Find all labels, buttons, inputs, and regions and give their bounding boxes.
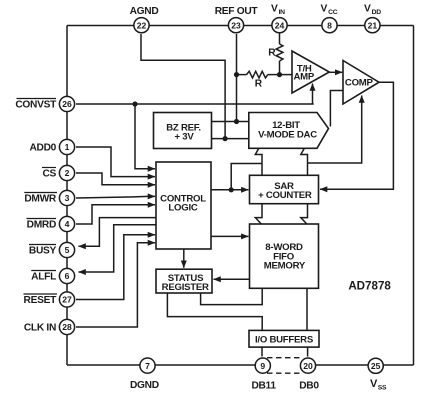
svg-text:V: V bbox=[364, 4, 371, 15]
wire CONVST branch to control logic bbox=[135, 104, 155, 169]
wire control logic to FIFO bbox=[211, 235, 248, 237]
svg-text:COMP: COMP bbox=[345, 78, 374, 89]
svg-text:R: R bbox=[255, 78, 263, 89]
pin 23 REF OUT bbox=[228, 18, 243, 33]
node REF OUT / DAC upper junction bbox=[234, 119, 239, 124]
svg-text:SS: SS bbox=[378, 384, 387, 391]
wire control logic to STATUS register bbox=[183, 249, 185, 268]
wire REF OUT junction to resistor R horizontal left lead bbox=[237, 74, 247, 76]
op-amp T/H AMP bbox=[292, 51, 329, 93]
wire DAC output to COMP lower input bbox=[308, 96, 362, 164]
wire CONVST to T/H AMP sample input bbox=[312, 84, 314, 105]
wire DMRD to control logic bbox=[76, 205, 155, 224]
wire right border bbox=[413, 26, 415, 366]
pin 24 VIN bbox=[272, 18, 287, 33]
wire VIN down to resistor bbox=[279, 34, 281, 45]
wire junction to T/H AMP input bbox=[280, 74, 293, 76]
svg-text:REF OUT: REF OUT bbox=[215, 6, 259, 17]
svg-text:DB0: DB0 bbox=[299, 381, 319, 392]
wire resistor right lead bbox=[268, 74, 280, 76]
pin 4 DMRD bbox=[59, 216, 74, 231]
svg-text:V-MODE DAC: V-MODE DAC bbox=[258, 130, 317, 141]
wire STATUS to I/O buffers bbox=[167, 293, 262, 330]
pin 25 VSS bbox=[368, 358, 383, 373]
resistor R horizontal bbox=[247, 71, 268, 78]
svg-text:23: 23 bbox=[231, 20, 241, 30]
svg-text:25: 25 bbox=[371, 361, 381, 371]
svg-text:DMRD: DMRD bbox=[27, 220, 56, 231]
pin 26 CONVST bbox=[59, 96, 74, 111]
wire top border bbox=[67, 25, 414, 27]
node AGND-BZREF junction bbox=[223, 136, 228, 141]
svg-text:CS: CS bbox=[42, 169, 56, 180]
wire ADD0 to control logic bbox=[76, 147, 155, 177]
svg-text:ALFL: ALFL bbox=[31, 272, 56, 283]
svg-text:20: 20 bbox=[303, 361, 313, 371]
wire COMP output to SAR right input bbox=[320, 82, 393, 189]
svg-text:DMWR: DMWR bbox=[24, 194, 57, 205]
svg-text:AMP: AMP bbox=[294, 72, 315, 83]
bus SAR to FIFO left line bbox=[255, 204, 262, 224]
wire resistor to junction bbox=[279, 61, 281, 75]
svg-text:7: 7 bbox=[145, 361, 150, 371]
pin 6 ALFL bbox=[59, 268, 74, 283]
svg-text:2: 2 bbox=[65, 168, 70, 178]
wire control logic to SAR bbox=[211, 189, 248, 191]
wire junction up to DAC bus bbox=[231, 164, 262, 190]
svg-text:LOGIC: LOGIC bbox=[168, 202, 197, 213]
svg-text:V: V bbox=[321, 4, 328, 15]
wire BUSY from control logic bbox=[79, 218, 157, 247]
svg-text:CC: CC bbox=[328, 9, 338, 16]
block 8-WORD FIFO MEMORY bbox=[250, 224, 319, 288]
block BZ REF bbox=[154, 113, 212, 149]
svg-text:27: 27 bbox=[62, 295, 72, 305]
block CONTROL LOGIC bbox=[156, 162, 211, 249]
svg-text:R: R bbox=[268, 48, 276, 59]
bus DAC to SAR right line bbox=[301, 149, 308, 176]
wire CLK IN to control logic bbox=[76, 243, 155, 327]
svg-text:+ COUNTER: + COUNTER bbox=[258, 190, 312, 201]
wire REF OUT vertical bbox=[236, 34, 238, 122]
svg-text:8: 8 bbox=[327, 20, 332, 30]
block STATUS REGISTER bbox=[156, 269, 212, 293]
node control-SAR junction bbox=[229, 187, 234, 192]
svg-text:DGND: DGND bbox=[130, 380, 159, 391]
wire DB11-DB0 dashed chords bbox=[267, 358, 301, 374]
svg-text:I/O BUFFERS: I/O BUFFERS bbox=[255, 334, 314, 345]
svg-text:IN: IN bbox=[279, 9, 286, 16]
wire DMWR to control logic bbox=[76, 196, 155, 198]
wire STATUS to FIFO bottom bbox=[201, 288, 263, 304]
svg-text:9: 9 bbox=[260, 361, 265, 371]
bus SAR to FIFO right line bbox=[301, 204, 308, 224]
svg-text:3: 3 bbox=[65, 193, 70, 203]
svg-text:ADD0: ADD0 bbox=[29, 143, 56, 154]
pin 21 VDD bbox=[365, 18, 380, 33]
svg-text:AGND: AGND bbox=[130, 6, 159, 17]
svg-text:V: V bbox=[370, 378, 378, 390]
svg-text:BUSY: BUSY bbox=[29, 246, 57, 257]
svg-text:DD: DD bbox=[372, 9, 382, 16]
wire CONVST horizontal bbox=[76, 103, 314, 105]
block I/O BUFFERS bbox=[249, 330, 319, 347]
wire I/O buffers to DB11 pin bbox=[261, 347, 263, 356]
svg-text:DB11: DB11 bbox=[251, 381, 276, 392]
wire RESET to control logic bbox=[76, 235, 155, 300]
pin 20 DB0 bbox=[300, 358, 315, 373]
block SAR + COUNTER bbox=[250, 175, 319, 203]
svg-text:RESET: RESET bbox=[24, 295, 58, 306]
wire bottom border right segment bbox=[308, 364, 414, 366]
svg-text:V: V bbox=[271, 4, 278, 15]
svg-text:6: 6 bbox=[65, 271, 70, 281]
svg-text:24: 24 bbox=[275, 20, 285, 30]
pin 9 DB11 bbox=[255, 358, 270, 373]
pin 5 BUSY bbox=[59, 242, 74, 257]
wire FIFO to I/O buffers bbox=[306, 288, 308, 330]
node VIN junction bbox=[277, 72, 282, 77]
pin 2 CS bbox=[59, 165, 74, 180]
svg-text:4: 4 bbox=[65, 219, 70, 229]
svg-text:CONVST: CONVST bbox=[15, 100, 57, 111]
pin 7 DGND bbox=[140, 358, 155, 373]
pin 8 VCC bbox=[322, 18, 337, 33]
wire CS to control logic bbox=[76, 173, 155, 185]
wire FIFO to STATUS register bbox=[214, 278, 250, 280]
wire BZ REF to DAC upper bbox=[212, 121, 249, 123]
wire BZ REF to DAC lower bbox=[212, 138, 249, 140]
pin 22 AGND bbox=[134, 18, 149, 33]
svg-text:21: 21 bbox=[368, 20, 378, 30]
svg-text:CLK IN: CLK IN bbox=[24, 323, 56, 334]
op-amp COMP bbox=[343, 61, 379, 105]
svg-text:+ 3V: + 3V bbox=[174, 131, 194, 142]
wire AGND down and to DAC lower input bbox=[141, 34, 225, 139]
wire left border bbox=[66, 26, 68, 366]
wire bottom border left segment bbox=[67, 364, 262, 366]
svg-text:1: 1 bbox=[65, 142, 70, 152]
node CONVST junction bbox=[132, 101, 137, 106]
svg-text:MEMORY: MEMORY bbox=[264, 260, 306, 271]
svg-text:28: 28 bbox=[62, 322, 72, 332]
pin 28 CLK IN bbox=[59, 319, 74, 334]
resistor R vertical bbox=[276, 44, 283, 61]
wire T/H AMP output to COMP bbox=[329, 71, 342, 73]
svg-text:26: 26 bbox=[62, 99, 72, 109]
wire ALFL from control logic bbox=[79, 225, 157, 272]
svg-text:AD7878: AD7878 bbox=[348, 280, 391, 293]
wire I/O buffers to DB0 pin bbox=[307, 347, 309, 356]
pin 1 ADD0 bbox=[59, 139, 74, 154]
node REF OUT / resistor junction bbox=[234, 72, 239, 77]
svg-text:5: 5 bbox=[65, 245, 70, 255]
bus DAC to SAR left line bbox=[255, 149, 262, 176]
pin 27 RESET bbox=[59, 292, 74, 307]
svg-text:REGISTER: REGISTER bbox=[162, 282, 209, 293]
svg-text:22: 22 bbox=[137, 20, 147, 30]
wire DAC apex to COMP lower left input bbox=[330, 91, 343, 127]
block 12-BIT V-MODE DAC bbox=[249, 113, 329, 149]
pin 3 DMWR bbox=[59, 190, 74, 205]
